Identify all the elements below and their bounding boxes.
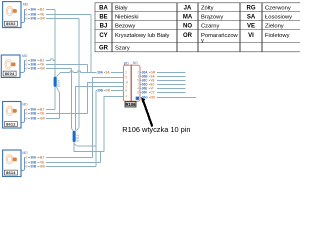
- svg-text:1: 1: [26, 156, 28, 160]
- svg-text:8: 8: [137, 91, 139, 95]
- svg-text:3: 3: [26, 17, 28, 21]
- right wire at pin row y=72.5: [140, 71, 186, 75]
- wire splice E114 lower leg to speaker3 pin1: [54, 87, 56, 110]
- svg-text:8604: 8604: [5, 71, 15, 76]
- legend color names: [115, 6, 292, 52]
- svg-text:BE: BE: [99, 15, 107, 21]
- svg-text:GR: GR: [40, 17, 45, 21]
- svg-text:SA: SA: [247, 15, 256, 21]
- legend color codes: [99, 6, 256, 52]
- svg-text:36A: 36A: [30, 8, 36, 12]
- right wire at pin row y=88.5: [140, 87, 186, 91]
- wire speaker2 pin3 corner down to splice E113: [70, 69, 72, 129]
- hop on speaker2 pin1 wire: [50, 59, 55, 61]
- hop on labeled net over vertical 71.3: [70, 71, 73, 72]
- connector bracket of 8614: [21, 158, 25, 171]
- svg-text:VI: VI: [248, 33, 254, 39]
- svg-text:MD: MD: [124, 61, 130, 65]
- wire speaker4 pin2 up to splice leg: [100, 152, 102, 163]
- right wire at pin row y=84.5: [140, 83, 186, 87]
- svg-text:3: 3: [26, 165, 28, 169]
- svg-text:NO: NO: [133, 61, 138, 65]
- splice E114: [54, 77, 61, 87]
- svg-text:NO: NO: [150, 96, 155, 100]
- svg-text:NO: NO: [183, 24, 192, 30]
- svg-text:Zółty: Zółty: [201, 6, 214, 12]
- svg-text:8614: 8614: [6, 170, 16, 175]
- connector right pin numbers: [137, 71, 139, 95]
- shield pin marker square: [136, 97, 139, 100]
- svg-text:RG: RG: [247, 6, 256, 12]
- pin 3 wire of 8614: [25, 165, 96, 169]
- svg-text:36F: 36F: [142, 91, 147, 95]
- labeled wire net into connector pin row1: [60, 72, 70, 74]
- pin 3 wire of 8612: [25, 117, 60, 121]
- svg-text:GR: GR: [40, 67, 45, 71]
- diagonal into splice E113 from left vertical: [71, 128, 73, 131]
- wire speaker2 pin2 corner down into labeled net: [86, 65, 88, 73]
- svg-text:OR: OR: [183, 33, 193, 39]
- svg-text:E114: E114: [57, 80, 61, 87]
- pin 1 wire of 8612: [25, 108, 55, 112]
- diagonal from splice E114 bottom: [56, 87, 59, 93]
- svg-text:E113: E113: [76, 134, 80, 141]
- diagonal into splice E114 top: [57, 73, 61, 77]
- svg-text:3: 3: [26, 67, 28, 71]
- svg-text:GR: GR: [105, 89, 110, 93]
- svg-text:30B: 30B: [30, 17, 36, 21]
- svg-text:MD: MD: [22, 151, 28, 155]
- svg-text:MD: MD: [22, 54, 28, 58]
- svg-text:y: y: [201, 38, 204, 44]
- connector label box R106: [125, 101, 136, 107]
- svg-text:R106: R106: [125, 102, 136, 107]
- svg-text:Fioletowy: Fioletowy: [265, 33, 290, 39]
- svg-text:BJ: BJ: [100, 24, 108, 30]
- svg-text:Czarny: Czarny: [201, 24, 219, 30]
- connector R106 body: [123, 64, 140, 101]
- speaker 8614 box: [3, 150, 21, 177]
- wire connector row4 vertical from splice E113 branch: [95, 91, 97, 167]
- wire connector row5 from splice E113 leg: [104, 97, 124, 152]
- svg-text:GR: GR: [40, 117, 45, 121]
- svg-text:CY: CY: [99, 33, 107, 39]
- pin 2 wire of 8612: [25, 112, 88, 116]
- hop on labeled net over vertical 78.8: [78, 71, 81, 72]
- right wire at pin row y=92.5: [140, 91, 186, 95]
- svg-text:30B: 30B: [30, 67, 36, 71]
- connector bracket of 8602: [21, 10, 25, 23]
- svg-text:30A: 30A: [97, 71, 103, 75]
- left labeled wire into pin row1: [96, 71, 124, 93]
- speaker 8612 box: [3, 102, 21, 129]
- svg-text:36A: 36A: [30, 156, 36, 160]
- svg-text:3: 3: [26, 117, 28, 121]
- pin 3 wire of 8602: [25, 17, 79, 21]
- svg-text:JA: JA: [184, 6, 192, 12]
- wire connector row4b center leg of splice E113: [75, 87, 123, 131]
- svg-text:Biały: Biały: [115, 6, 128, 12]
- svg-text:1: 1: [26, 8, 28, 12]
- wire splice E113 branch right at y146: [77, 145, 96, 147]
- svg-text:GR: GR: [99, 46, 109, 52]
- svg-text:8612: 8612: [6, 121, 16, 126]
- svg-text:GR: GR: [40, 165, 45, 169]
- svg-text:Kryształowy lub Biały: Kryształowy lub Biały: [115, 33, 170, 39]
- svg-text:Brązowy: Brązowy: [201, 15, 223, 21]
- svg-text:Bezowy: Bezowy: [115, 24, 135, 30]
- svg-text:MD: MD: [22, 103, 28, 107]
- wire connector row2 from speaker4 pin1: [92, 78, 123, 158]
- vertical wire speaker1 pin3 down to splice E113: [78, 19, 80, 128]
- pin 1 wire of 8602: [25, 8, 55, 12]
- diagonal into splice E113 from right vertical: [76, 128, 78, 131]
- right shield wire pin10: [140, 96, 196, 100]
- right wire at pin row y=76.5: [140, 75, 186, 79]
- diagonal from splice E113 to branch: [74, 143, 77, 146]
- pointer arrow to R106: [141, 97, 152, 126]
- wire splice E113 bottom leg right at y152: [74, 142, 104, 152]
- right wire at pin row y=80.5: [140, 79, 186, 83]
- wire connector row3 from speaker3 pin2: [87, 83, 123, 114]
- svg-text:Łososiowy: Łososiowy: [265, 15, 292, 21]
- svg-text:SA: SA: [105, 71, 110, 75]
- svg-text:BJ: BJ: [40, 8, 44, 12]
- pin 2 wire of 8614: [25, 161, 101, 165]
- pin 1 wire of 8604: [25, 59, 51, 63]
- vertical wire to speaker3 pin3: [59, 93, 61, 119]
- svg-text:MA: MA: [183, 15, 193, 21]
- svg-text:6: 6: [125, 89, 127, 93]
- connector bracket of 8604: [20, 61, 25, 73]
- svg-text:2: 2: [125, 71, 127, 75]
- speaker 8604 box: [1, 55, 20, 78]
- svg-text:Pomarańczow: Pomarańczow: [201, 33, 239, 39]
- svg-text:VE: VE: [40, 112, 44, 116]
- svg-text:Czerwony: Czerwony: [265, 6, 291, 12]
- svg-text:5: 5: [125, 76, 127, 80]
- diagonal and hop wire segments: [50, 59, 80, 146]
- svg-text:Szary: Szary: [115, 46, 130, 52]
- svg-text:VE: VE: [247, 24, 255, 30]
- pin 1 wire of 8614: [25, 156, 93, 160]
- svg-text:BJ: BJ: [40, 156, 44, 160]
- connector left pin numbers: [125, 71, 129, 99]
- svg-text:Zielony: Zielony: [265, 24, 284, 30]
- svg-text:8602: 8602: [6, 21, 16, 26]
- wire lattice: [55, 10, 123, 167]
- svg-text:R106 wtyczka 10 pin: R106 wtyczka 10 pin: [122, 125, 190, 134]
- legend table grid: [95, 3, 303, 52]
- svg-text:Niebieski: Niebieski: [115, 15, 139, 21]
- connector bracket of 8612: [21, 110, 25, 123]
- vertical wire speaker1 pin2 down to labeled net: [90, 15, 92, 73]
- svg-text:30B: 30B: [30, 165, 36, 169]
- svg-text:36B: 36B: [30, 112, 36, 116]
- svg-text:30B: 30B: [97, 89, 103, 93]
- pin 2 wire of 8604: [25, 63, 88, 67]
- vertical wire speaker1 pin1 down to splice E114: [54, 10, 56, 77]
- svg-text:30B: 30B: [30, 117, 36, 121]
- svg-text:4: 4: [125, 95, 127, 99]
- splice E113: [73, 131, 80, 142]
- speaker 8602 box: [3, 2, 21, 28]
- svg-text:2: 2: [26, 112, 28, 116]
- pin 3 wire of 8604: [25, 67, 72, 71]
- svg-text:MD: MD: [23, 2, 29, 6]
- pin 2 wire of 8602: [25, 13, 92, 17]
- svg-text:BA: BA: [99, 6, 108, 12]
